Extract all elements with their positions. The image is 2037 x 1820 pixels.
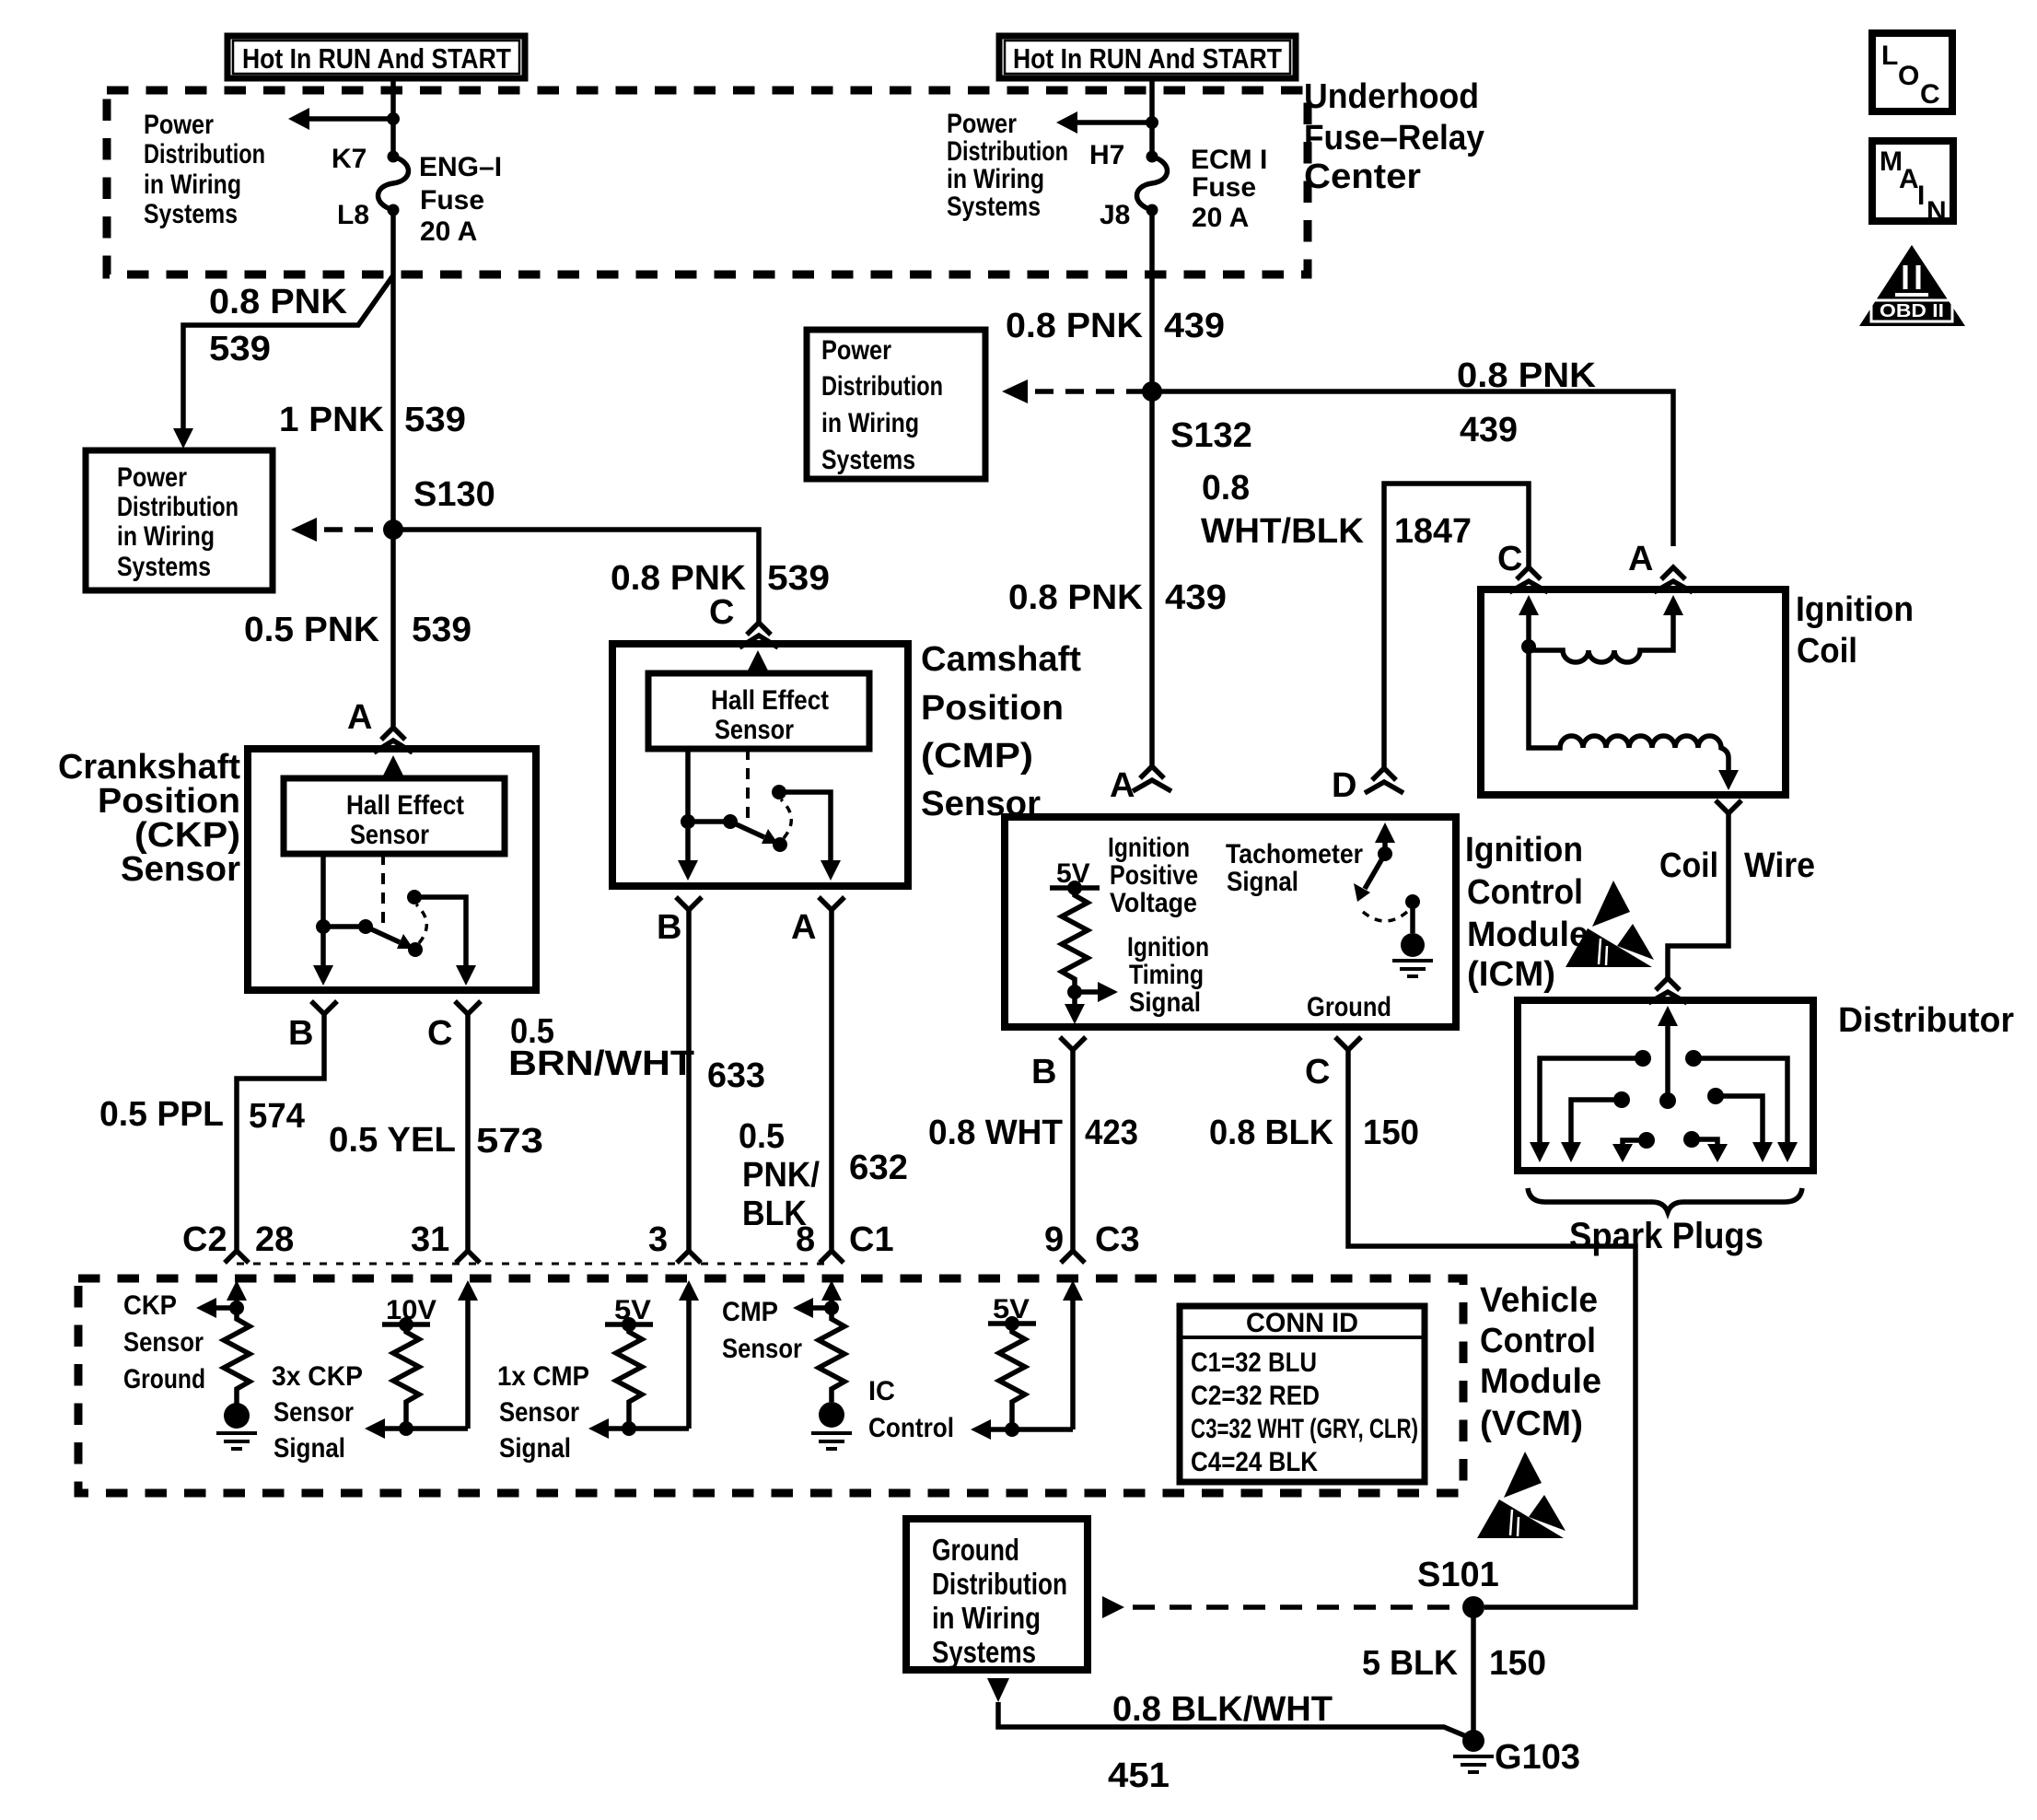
resistor 3x CKP bbox=[393, 1324, 419, 1429]
svg-text:Systems: Systems bbox=[144, 199, 238, 229]
svg-text:I: I bbox=[1917, 181, 1925, 211]
resistor CMP pulldown bbox=[819, 1308, 844, 1402]
svg-text:3x CKP: 3x CKP bbox=[272, 1361, 363, 1392]
pin connector below coil bbox=[1716, 800, 1741, 813]
switch inside CKP bbox=[316, 890, 426, 957]
label 0.5 YEL 573 bbox=[329, 1121, 543, 1161]
label 0.8 PNK 539 (CMP feed) bbox=[611, 559, 830, 598]
wire CKP pin C inside bbox=[414, 897, 476, 986]
svg-text:Position: Position bbox=[98, 782, 240, 821]
label Vehicle Control Module (VCM) bbox=[1480, 1281, 1601, 1443]
svg-text:20 A: 20 A bbox=[1192, 203, 1249, 233]
svg-text:in Wiring: in Wiring bbox=[821, 408, 919, 438]
label 1 PNK 539 bbox=[279, 401, 466, 439]
wire arrow into VCM pin 8 bbox=[821, 1280, 842, 1308]
rotor center (distributor) bbox=[1658, 1006, 1678, 1109]
label Crankshaft Position (CKP) Sensor bbox=[58, 748, 240, 889]
svg-text:C3=32 WHT (GRY, CLR): C3=32 WHT (GRY, CLR) bbox=[1191, 1414, 1418, 1444]
svg-text:ECM I: ECM I bbox=[1191, 145, 1267, 175]
svg-text:Module: Module bbox=[1467, 916, 1589, 954]
underhood fuse-relay center dashed box bbox=[107, 90, 1308, 274]
svg-text:20 A: 20 A bbox=[420, 216, 477, 247]
wire arrow into VCM pin 9 bbox=[1063, 1280, 1083, 1429]
svg-text:in Wiring: in Wiring bbox=[144, 169, 241, 200]
label 0.8 PNK 439 (ICM feed) bbox=[1008, 578, 1227, 617]
svg-text:Sensor: Sensor bbox=[350, 820, 429, 850]
wire coil wire bbox=[1668, 813, 1729, 979]
svg-text:9: 9 bbox=[1044, 1220, 1064, 1259]
svg-text:K7: K7 bbox=[332, 144, 367, 174]
junction bbox=[387, 112, 400, 125]
svg-text:573: 573 bbox=[476, 1122, 543, 1161]
wire arrow into VCM pin 3 bbox=[679, 1280, 699, 1429]
label 0.8 BLK 150 bbox=[1209, 1114, 1419, 1152]
svg-text:S101: S101 bbox=[1417, 1556, 1499, 1594]
svg-text:Hall Effect: Hall Effect bbox=[711, 685, 829, 716]
label Underhood Fuse-Relay Center bbox=[1304, 77, 1484, 196]
pin C connector into CMP bbox=[709, 593, 778, 647]
svg-text:539: 539 bbox=[767, 559, 830, 598]
svg-text:A: A bbox=[1628, 540, 1653, 578]
switch inside CMP bbox=[681, 785, 791, 852]
svg-text:BRN/WHT: BRN/WHT bbox=[508, 1044, 694, 1083]
label 0.8 WHT/BLK 1847 bbox=[1201, 469, 1472, 551]
splice S101 bbox=[1417, 1556, 1499, 1618]
svg-text:0.8 PNK: 0.8 PNK bbox=[209, 283, 348, 321]
svg-text:Sensor: Sensor bbox=[274, 1397, 354, 1428]
pin K7 bbox=[332, 144, 400, 174]
spark plug wire 5 bbox=[1612, 1132, 1655, 1162]
wire arrow into VCM pin 28 bbox=[227, 1280, 247, 1308]
pin J8 bbox=[1100, 200, 1158, 230]
node 5V tap (1x CMP) bbox=[605, 1317, 653, 1332]
box Power Distribution in Wiring Systems (S132 ref) bbox=[807, 330, 985, 479]
svg-text:(VCM): (VCM) bbox=[1480, 1405, 1583, 1443]
crankshaft position CKP sensor box bbox=[248, 749, 536, 990]
svg-text:Module: Module bbox=[1480, 1362, 1601, 1401]
svg-text:8: 8 bbox=[796, 1220, 815, 1259]
svg-text:Systems: Systems bbox=[932, 1635, 1036, 1669]
svg-text:3: 3 bbox=[648, 1220, 668, 1259]
svg-text:Wire: Wire bbox=[1744, 846, 1815, 885]
svg-text:Control: Control bbox=[1480, 1322, 1596, 1360]
svg-text:Distribution: Distribution bbox=[144, 139, 265, 169]
svg-text:Coil: Coil bbox=[1659, 846, 1718, 885]
spark plug wire 3 bbox=[1561, 1091, 1630, 1162]
svg-text:A: A bbox=[791, 908, 816, 947]
svg-text:A: A bbox=[347, 698, 372, 737]
svg-text:Control: Control bbox=[1467, 873, 1583, 912]
svg-text:S132: S132 bbox=[1170, 416, 1252, 455]
svg-text:Sensor: Sensor bbox=[722, 1334, 802, 1364]
ground symbol (CKP return) bbox=[216, 1403, 257, 1449]
svg-text:in Wiring: in Wiring bbox=[117, 521, 215, 552]
svg-text:C: C bbox=[1497, 540, 1522, 578]
svg-text:Ignition: Ignition bbox=[1465, 831, 1583, 869]
svg-text:Power: Power bbox=[117, 462, 187, 493]
svg-text:Hall Effect: Hall Effect bbox=[346, 790, 464, 821]
pin 31 bbox=[411, 1220, 480, 1263]
wire 0.8 BLK 150 to S101 bbox=[1348, 1050, 1635, 1607]
wire arrow up inside CMP bbox=[748, 650, 768, 673]
wire IC control arrow bbox=[971, 1419, 1073, 1440]
svg-text:31: 31 bbox=[411, 1220, 449, 1259]
label 0.8 PNK 439 (above S132) bbox=[1006, 307, 1225, 345]
label 5 BLK 150 bbox=[1362, 1644, 1546, 1683]
wire 633 down to pin 3 bbox=[686, 910, 692, 1251]
svg-text:539: 539 bbox=[412, 611, 471, 649]
svg-text:Ground: Ground bbox=[123, 1364, 205, 1394]
svg-text:0.8 PNK: 0.8 PNK bbox=[611, 559, 747, 598]
svg-text:Crankshaft: Crankshaft bbox=[58, 748, 240, 787]
spark plug wire 2 bbox=[1685, 1050, 1798, 1162]
vehicle control module VCM dashed box bbox=[78, 1278, 1463, 1493]
node Hot In RUN And START (right) bbox=[999, 36, 1296, 78]
svg-text:5 BLK: 5 BLK bbox=[1362, 1644, 1459, 1683]
connector strip line C1/C2 bbox=[237, 1263, 832, 1266]
svg-text:G103: G103 bbox=[1495, 1738, 1580, 1777]
node 10V tap bbox=[382, 1317, 430, 1332]
svg-text:Fuse: Fuse bbox=[420, 185, 484, 216]
svg-text:PNK/: PNK/ bbox=[742, 1156, 820, 1195]
pin A connector into coil bbox=[1628, 540, 1693, 592]
svg-text:Ignition: Ignition bbox=[1108, 833, 1190, 863]
svg-text:Vehicle: Vehicle bbox=[1480, 1281, 1598, 1320]
svg-text:Coil: Coil bbox=[1797, 632, 1857, 671]
svg-text:0.8 BLK: 0.8 BLK bbox=[1209, 1114, 1334, 1152]
camshaft position CMP sensor box bbox=[612, 644, 908, 886]
symbol OBD II bbox=[1859, 245, 1965, 326]
wire S130 to CMP C bbox=[393, 530, 759, 623]
ground symbol (CMP return) bbox=[811, 1402, 852, 1449]
box Ground Distribution in Wiring Systems bbox=[906, 1519, 1088, 1670]
svg-text:Distribution: Distribution bbox=[117, 492, 239, 522]
label Coil Wire bbox=[1659, 846, 1815, 885]
wire ENG-I feed vertical bbox=[390, 78, 396, 523]
svg-text:Center: Center bbox=[1304, 157, 1421, 196]
svg-text:B: B bbox=[1031, 1053, 1056, 1091]
pin A connector below CMP bbox=[791, 897, 844, 947]
label 3x CKP Sensor Signal bbox=[272, 1361, 363, 1464]
wire dashed reference to ground distribution bbox=[1102, 1596, 1462, 1618]
wire 0.8 PNK 539 branch bbox=[173, 275, 393, 449]
svg-text:Ignition: Ignition bbox=[1127, 932, 1209, 962]
label Power Distribution in Wiring Systems (left fuse) bbox=[144, 110, 265, 229]
svg-text:N: N bbox=[1926, 196, 1947, 227]
pin 8 C1 bbox=[796, 1220, 894, 1263]
coil secondary winding bbox=[1529, 647, 1739, 790]
node 5V tap (IC) bbox=[988, 1316, 1036, 1331]
wire ignition timing signal arrow bbox=[1065, 982, 1118, 1024]
ground G103 bbox=[1453, 1730, 1580, 1777]
junction bbox=[1146, 116, 1158, 129]
svg-text:in Wiring: in Wiring bbox=[947, 164, 1044, 194]
svg-text:28: 28 bbox=[255, 1220, 294, 1259]
label Ignition Timing Signal bbox=[1127, 932, 1209, 1018]
svg-text:Sensor: Sensor bbox=[499, 1397, 579, 1428]
wire 0.8 BLK/WHT 451 bbox=[987, 1678, 1472, 1739]
svg-text:Sensor: Sensor bbox=[123, 1327, 204, 1358]
svg-text:C3: C3 bbox=[1095, 1220, 1140, 1259]
pin C connector into coil bbox=[1497, 540, 1548, 592]
label Ignition Control Module (ICM) bbox=[1465, 831, 1589, 994]
svg-text:(ICM): (ICM) bbox=[1467, 955, 1555, 994]
spark plug wire 6 bbox=[1683, 1131, 1728, 1162]
fuse ECM I 20A bbox=[1137, 157, 1168, 210]
svg-text:Power: Power bbox=[144, 110, 214, 140]
svg-text:C: C bbox=[1920, 79, 1940, 110]
symbol LOC bbox=[1872, 33, 1952, 111]
svg-text:ENG–I: ENG–I bbox=[419, 152, 502, 182]
pin L8 bbox=[337, 200, 400, 230]
switch tachometer (ICM) bbox=[1354, 822, 1425, 957]
svg-text:Distribution: Distribution bbox=[821, 371, 943, 402]
svg-text:Timing: Timing bbox=[1129, 960, 1204, 990]
pin B connector below CKP bbox=[288, 1001, 337, 1053]
label 0.5 PNK/BLK (632) bbox=[739, 1117, 908, 1233]
svg-text:Camshaft: Camshaft bbox=[921, 640, 1081, 679]
svg-text:0.8 WHT: 0.8 WHT bbox=[928, 1114, 1063, 1152]
label Camshaft Position (CMP) Sensor bbox=[921, 640, 1081, 823]
wire arrow to power distribution (left fuse) bbox=[288, 108, 393, 130]
svg-text:(CMP): (CMP) bbox=[921, 737, 1033, 776]
label 1x CMP Sensor Signal bbox=[497, 1361, 589, 1464]
fuse ENG-I 20A bbox=[378, 157, 409, 210]
label 0.5 PPL 574 bbox=[99, 1095, 305, 1136]
wire dashed hall control (CKP) bbox=[381, 854, 385, 928]
coil primary winding bbox=[1519, 595, 1683, 662]
label Power Distribution in Wiring Systems (right fuse) bbox=[947, 109, 1068, 222]
svg-text:Spark Plugs: Spark Plugs bbox=[1569, 1216, 1763, 1256]
ignition coil box bbox=[1481, 589, 1786, 795]
svg-text:CKP: CKP bbox=[123, 1290, 177, 1321]
table CONN ID bbox=[1180, 1306, 1425, 1482]
pin C connector below ICM bbox=[1305, 1037, 1361, 1091]
label Ignition Coil bbox=[1796, 590, 1914, 671]
svg-text:Ground: Ground bbox=[1307, 992, 1391, 1022]
label Ignition Positive Voltage bbox=[1108, 833, 1198, 918]
wire 0.5 YEL 573 bbox=[465, 1014, 471, 1251]
wire ECM I feed vertical bbox=[1149, 78, 1155, 767]
svg-text:D: D bbox=[1332, 766, 1356, 805]
pin C2 28 bbox=[182, 1220, 294, 1263]
svg-text:C1=32 BLU: C1=32 BLU bbox=[1191, 1347, 1317, 1378]
svg-text:1 PNK: 1 PNK bbox=[279, 401, 385, 439]
svg-text:Control: Control bbox=[868, 1413, 954, 1443]
svg-text:IC: IC bbox=[868, 1376, 895, 1406]
svg-text:451: 451 bbox=[1108, 1756, 1170, 1795]
wire 1x CMP sensor signal arrow bbox=[588, 1418, 689, 1439]
svg-text:Ground: Ground bbox=[932, 1533, 1019, 1567]
wire CMP pin B inside bbox=[678, 749, 698, 881]
svg-text:0.8 PNK: 0.8 PNK bbox=[1006, 307, 1144, 345]
svg-text:439: 439 bbox=[1165, 578, 1227, 617]
svg-text:633: 633 bbox=[707, 1056, 765, 1095]
distributor box bbox=[1518, 1000, 1813, 1171]
label 0.8 PNK 539 bbox=[209, 283, 348, 368]
svg-text:Voltage: Voltage bbox=[1110, 888, 1197, 918]
box Power Distribution in Wiring Systems (S130 ref) bbox=[86, 450, 273, 590]
svg-text:A: A bbox=[1110, 766, 1135, 805]
svg-text:B: B bbox=[288, 1014, 313, 1053]
wire dashed reference to power distribution bbox=[291, 518, 393, 542]
svg-text:Positive: Positive bbox=[1110, 860, 1198, 891]
wire S130 down to CKP bbox=[390, 530, 396, 728]
ignition control module ICM box bbox=[1005, 817, 1456, 1027]
svg-text:150: 150 bbox=[1363, 1114, 1419, 1152]
svg-text:Distributor: Distributor bbox=[1838, 1001, 2014, 1040]
pin H7 bbox=[1089, 140, 1158, 170]
svg-text:0.5: 0.5 bbox=[739, 1117, 785, 1156]
svg-text:0.8 PNK: 0.8 PNK bbox=[1457, 356, 1597, 395]
label 0.8 PNK 439 (coil feed) bbox=[1457, 356, 1597, 449]
svg-text:L8: L8 bbox=[337, 200, 369, 230]
pin connector into distributor bbox=[1648, 978, 1687, 1003]
svg-text:423: 423 bbox=[1085, 1114, 1138, 1152]
svg-text:O: O bbox=[1898, 61, 1919, 91]
svg-text:0.5 PPL: 0.5 PPL bbox=[99, 1095, 224, 1134]
svg-text:539: 539 bbox=[404, 401, 466, 439]
wire 0.8 WHT 423 bbox=[1070, 1050, 1076, 1251]
svg-text:Fuse–Relay: Fuse–Relay bbox=[1304, 119, 1484, 157]
label 0.5 PNK 539 bbox=[244, 611, 471, 649]
wire 0.5 PPL 574 bbox=[237, 1014, 324, 1251]
svg-text:574: 574 bbox=[249, 1097, 305, 1136]
svg-text:C: C bbox=[1305, 1053, 1330, 1091]
wire dashed hall control (CMP) bbox=[746, 749, 750, 823]
pin B connector below CMP bbox=[657, 897, 702, 947]
svg-text:Systems: Systems bbox=[117, 552, 211, 582]
svg-text:632: 632 bbox=[849, 1149, 908, 1187]
wire CMP sensor arrow bbox=[793, 1298, 839, 1318]
pin 3 bbox=[648, 1220, 701, 1263]
svg-text:0.5 PNK: 0.5 PNK bbox=[244, 611, 380, 649]
resistor CKP sensor ground bbox=[224, 1308, 250, 1404]
label Tachometer Signal bbox=[1226, 839, 1363, 897]
label 0.8 WHT 423 bbox=[928, 1114, 1138, 1152]
hall effect sensor (CKP) inner box bbox=[284, 778, 505, 854]
svg-text:0.8: 0.8 bbox=[1202, 469, 1250, 507]
svg-text:Hot In RUN And START: Hot In RUN And START bbox=[242, 42, 511, 75]
spark plug wire 1 bbox=[1530, 1050, 1651, 1162]
label CMP Sensor bbox=[722, 1297, 802, 1364]
svg-text:439: 439 bbox=[1164, 307, 1225, 345]
label ENG-I Fuse 20 A bbox=[419, 152, 502, 247]
label 0.8 BLK/WHT 451 bbox=[1108, 1690, 1333, 1795]
wire 5 BLK 150 bbox=[1471, 1607, 1476, 1741]
svg-text:A: A bbox=[1899, 164, 1919, 194]
svg-text:Signal: Signal bbox=[1227, 867, 1298, 897]
svg-text:Power: Power bbox=[947, 109, 1017, 139]
pin C connector below CKP bbox=[427, 1001, 481, 1053]
svg-text:Hot In RUN And START: Hot In RUN And START bbox=[1013, 42, 1282, 75]
label 0.5 BRN/WHT (633) bbox=[508, 1012, 765, 1095]
splice S132 bbox=[1142, 381, 1252, 455]
svg-text:Tachometer: Tachometer bbox=[1226, 839, 1363, 869]
svg-text:Systems: Systems bbox=[947, 192, 1041, 222]
svg-text:0.8 BLK/WHT: 0.8 BLK/WHT bbox=[1112, 1690, 1333, 1729]
wire 632 down to pin 8 bbox=[829, 910, 834, 1251]
svg-text:in Wiring: in Wiring bbox=[932, 1601, 1041, 1635]
svg-text:C: C bbox=[709, 593, 734, 632]
svg-text:OBD II: OBD II bbox=[1880, 301, 1944, 321]
svg-text:150: 150 bbox=[1489, 1644, 1546, 1683]
svg-text:Fuse: Fuse bbox=[1192, 172, 1256, 203]
svg-text:Position: Position bbox=[921, 689, 1064, 728]
svg-text:Signal: Signal bbox=[1129, 987, 1201, 1018]
resistor ignition timing (ICM) bbox=[1062, 888, 1088, 992]
svg-text:1x CMP: 1x CMP bbox=[497, 1361, 589, 1392]
svg-text:WHT/BLK: WHT/BLK bbox=[1201, 512, 1365, 551]
svg-text:CONN ID: CONN ID bbox=[1246, 1308, 1358, 1338]
svg-text:C4=24 BLK: C4=24 BLK bbox=[1191, 1447, 1318, 1477]
wire arrow up inside CKP bbox=[383, 755, 403, 778]
svg-text:Distribution: Distribution bbox=[932, 1567, 1067, 1601]
pin 9 C3 bbox=[1044, 1220, 1140, 1263]
svg-text:Power: Power bbox=[821, 335, 891, 366]
svg-text:1847: 1847 bbox=[1394, 512, 1472, 551]
svg-text:Underhood: Underhood bbox=[1304, 77, 1479, 116]
node Hot In RUN And START (left) bbox=[227, 36, 525, 78]
svg-text:439: 439 bbox=[1460, 411, 1518, 449]
label ECM I Fuse 20 A bbox=[1191, 145, 1267, 233]
wire 3x CKP sensor signal arrow bbox=[365, 1418, 468, 1439]
svg-text:J8: J8 bbox=[1100, 200, 1130, 230]
resistor IC control bbox=[999, 1324, 1025, 1429]
svg-text:L: L bbox=[1881, 41, 1898, 71]
svg-text:Distribution: Distribution bbox=[947, 136, 1068, 167]
svg-text:S130: S130 bbox=[413, 475, 495, 514]
svg-text:Sensor: Sensor bbox=[715, 715, 794, 745]
wire CKP sensor ground arrow bbox=[196, 1298, 244, 1318]
wire CMP pin A inside bbox=[779, 792, 841, 881]
pin B connector below ICM bbox=[1031, 1037, 1086, 1091]
node 5V tap (ICM) bbox=[1050, 881, 1100, 895]
svg-text:CMP: CMP bbox=[722, 1297, 778, 1327]
svg-text:B: B bbox=[657, 908, 681, 947]
svg-text:C2: C2 bbox=[182, 1220, 227, 1259]
ESD symbol (ICM) bbox=[1566, 881, 1654, 967]
label CKP Sensor Ground bbox=[123, 1290, 205, 1394]
wire 1847 ICM D to coil C bbox=[1384, 484, 1529, 769]
wire arrow to power distribution (right fuse) bbox=[1056, 111, 1152, 134]
wire S132 to ignition coil A bbox=[1152, 391, 1673, 546]
brace spark plugs bbox=[1528, 1188, 1802, 1212]
spark plug wire 4 bbox=[1707, 1088, 1773, 1162]
label IC Control bbox=[868, 1376, 954, 1443]
wire arrow into VCM pin 31 bbox=[458, 1280, 478, 1429]
symbol MAIN bbox=[1872, 141, 1953, 227]
pin A connector into ICM bbox=[1110, 766, 1171, 805]
svg-text:C: C bbox=[427, 1014, 452, 1053]
svg-text:0.5 YEL: 0.5 YEL bbox=[329, 1121, 456, 1160]
svg-text:(CKP): (CKP) bbox=[134, 816, 240, 855]
wire CKP pin B inside bbox=[313, 854, 333, 986]
svg-text:Systems: Systems bbox=[821, 445, 915, 475]
svg-text:0.8 PNK: 0.8 PNK bbox=[1008, 578, 1144, 617]
svg-text:Sensor: Sensor bbox=[121, 850, 240, 889]
ESD symbol (VCM) bbox=[1477, 1452, 1566, 1538]
splice S130 bbox=[383, 475, 495, 540]
ground symbol (ICM internal) bbox=[1392, 961, 1433, 976]
hall effect sensor (CMP) inner box bbox=[648, 673, 869, 749]
resistor 1x CMP bbox=[616, 1324, 642, 1429]
svg-text:C1: C1 bbox=[849, 1220, 894, 1259]
wire dashed reference to power distribution (S132) bbox=[1002, 379, 1152, 403]
svg-text:C2=32 RED: C2=32 RED bbox=[1191, 1381, 1320, 1411]
svg-text:H7: H7 bbox=[1089, 140, 1124, 170]
svg-text:539: 539 bbox=[209, 330, 271, 368]
